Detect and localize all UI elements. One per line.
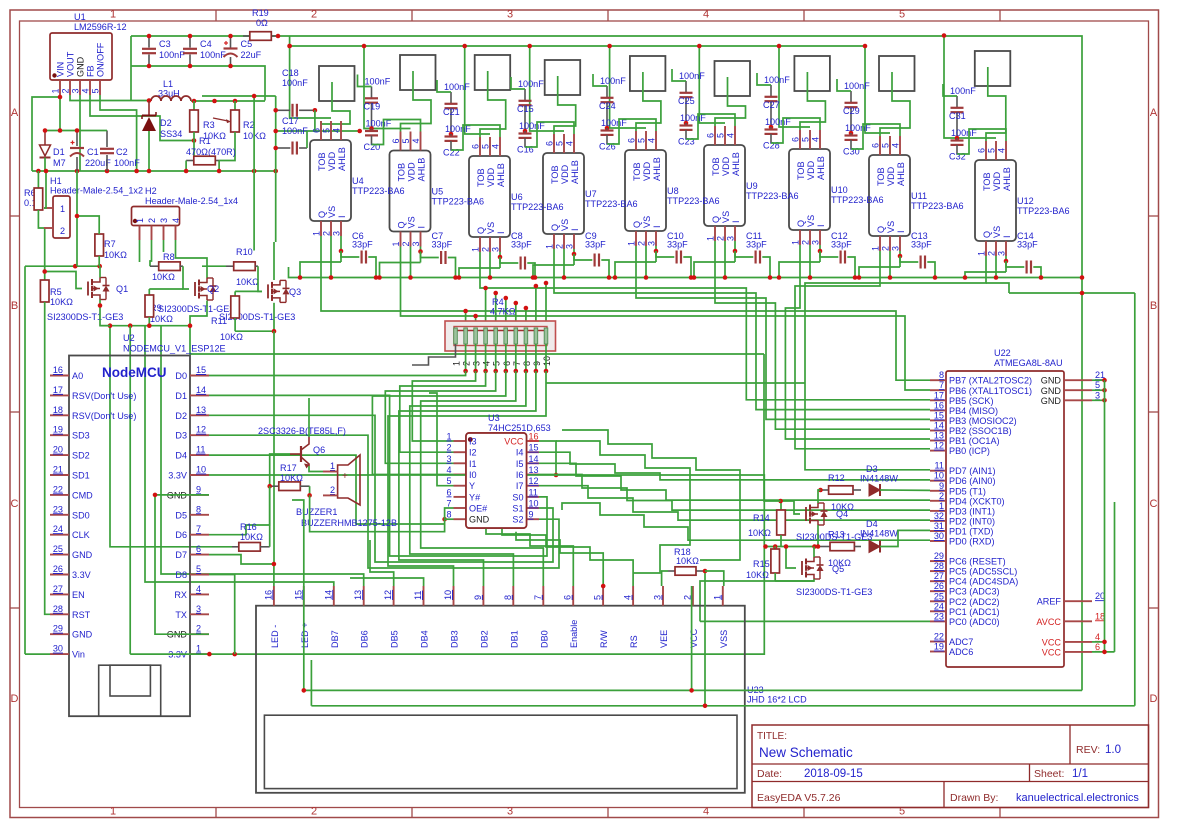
svg-text:PD4 (XCKT0): PD4 (XCKT0): [949, 496, 1005, 506]
svg-text:2: 2: [196, 624, 201, 634]
wire VDD riser U10: [779, 46, 810, 127]
U7 pin 5 VDD: [563, 134, 565, 153]
svg-text:R5: R5: [50, 287, 62, 297]
diode D1 M7: [44, 131, 46, 146]
svg-text:I5: I5: [516, 459, 524, 469]
wire VDD riser U11: [865, 46, 890, 133]
wire LCD DB4 stub net: [350, 578, 424, 586]
wire U9 I to bus3 left: [694, 262, 735, 278]
svg-text:C2: C2: [116, 147, 128, 157]
svg-text:4: 4: [196, 584, 201, 594]
U5 pin 2 VS: [410, 232, 412, 247]
svg-text:8: 8: [503, 595, 513, 600]
wire C24 top: [593, 74, 607, 86]
U22 pin 19 ADC6: [930, 651, 946, 653]
R4 element 6: [504, 328, 508, 344]
svg-text:3: 3: [507, 9, 513, 21]
touch pad U9 channel: [715, 61, 751, 96]
svg-text:23: 23: [53, 504, 63, 514]
svg-text:4: 4: [446, 465, 451, 475]
junction R4 pin 4: [483, 369, 488, 374]
svg-text:VSS: VSS: [719, 630, 729, 648]
svg-text:VDD: VDD: [806, 160, 816, 180]
wire U7 Q output staircase: [554, 249, 930, 410]
svg-text:TTP223-BA6: TTP223-BA6: [432, 197, 485, 207]
svg-text:VS: VS: [992, 226, 1002, 238]
capacitor C25 100nF: [685, 81, 687, 93]
svg-text:16: 16: [53, 365, 63, 375]
U5 pin 6 TOB: [400, 132, 402, 151]
svg-text:RSV(Don't Use): RSV(Don't Use): [72, 391, 136, 401]
U10 pin 3 I: [819, 230, 821, 245]
module U2 body: [69, 356, 190, 717]
svg-text:I: I: [896, 230, 906, 233]
svg-text:1: 1: [871, 246, 881, 251]
capacitor C24 100nF: [606, 86, 608, 98]
svg-text:TTP223-BA6: TTP223-BA6: [585, 199, 638, 209]
svg-text:5: 5: [801, 137, 811, 142]
svg-text:VDD: VDD: [886, 166, 896, 186]
svg-text:3: 3: [491, 247, 501, 252]
svg-text:D3: D3: [866, 464, 878, 474]
wire VDD riser U6: [465, 46, 490, 134]
wire input node rail: [45, 130, 107, 132]
svg-text:2: 2: [60, 226, 65, 236]
svg-text:D1: D1: [53, 147, 65, 157]
svg-text:R3: R3: [203, 120, 215, 130]
wire U3 S1 from NodeMCU D2: [209, 415, 553, 562]
IC U7 TTP223-BA6 body: [543, 153, 584, 234]
U22 pin 18 AVCC: [1064, 620, 1092, 622]
svg-text:6: 6: [871, 143, 881, 148]
U23 pin 5 R/W: [602, 586, 604, 606]
svg-text:Drawn By:: Drawn By:: [950, 792, 998, 804]
U9 pin 6 TOB: [714, 126, 716, 145]
svg-text:R12: R12: [828, 473, 845, 483]
wire R16 right to R17 node: [269, 486, 271, 547]
U2 left pin 18 RSV(Don't Use): [50, 414, 69, 416]
svg-text:D6: D6: [175, 530, 187, 540]
U2 left pin 29 GND: [50, 633, 69, 635]
svg-text:PC3 (ADC3): PC3 (ADC3): [949, 587, 1000, 597]
svg-text:10: 10: [443, 590, 453, 600]
svg-text:PC4 (ADC4SDA): PC4 (ADC4SDA): [949, 577, 1018, 587]
svg-text:2: 2: [555, 244, 565, 249]
wire Q3 source down: [273, 303, 275, 331]
svg-text:8: 8: [939, 370, 944, 380]
wire U10 VS to bus3: [809, 245, 811, 278]
wire D3 to U22 PD5: [880, 489, 930, 491]
svg-text:100nF: 100nF: [282, 78, 308, 88]
svg-text:VS: VS: [407, 216, 417, 228]
wire H2 pin3 stub: [163, 240, 165, 252]
svg-text:1: 1: [627, 241, 637, 246]
wire U11 VS to bus3: [889, 251, 891, 278]
U2 right pin 2 GND: [190, 633, 209, 635]
svg-text:C15: C15: [517, 104, 534, 114]
U22 pin 24 PC1 (ADC1): [930, 610, 946, 612]
svg-text:I: I: [496, 231, 506, 234]
svg-text:VS: VS: [560, 219, 570, 231]
svg-text:Q: Q: [796, 220, 806, 227]
U8 pin 2 VS: [645, 231, 647, 246]
wire U3 S0 from NodeMCU D1: [209, 395, 547, 556]
capacitor C23 100nF: [685, 123, 687, 126]
U12 pin 2 VS: [995, 241, 997, 256]
U7 pin 1 Q: [553, 234, 555, 249]
svg-text:100nF: 100nF: [159, 50, 185, 60]
touch pad U4 channel: [319, 66, 355, 101]
svg-text:5: 5: [716, 133, 726, 138]
svg-text:3: 3: [159, 218, 169, 223]
wire U11 net to R4: [535, 286, 537, 321]
wire NodeMCU D6 to Q6 base: [209, 486, 270, 535]
U11 pin 4 AHLB: [899, 136, 901, 155]
svg-text:VDD: VDD: [486, 167, 496, 187]
touch pad U5 channel: [400, 55, 436, 90]
svg-text:R/W: R/W: [599, 630, 609, 648]
svg-text:4: 4: [411, 138, 421, 143]
junction U12 I pin: [1004, 259, 1009, 264]
svg-text:3.3V: 3.3V: [168, 471, 188, 481]
U22 pin 23 PC0 (ADC0): [930, 620, 946, 622]
svg-text:I7: I7: [516, 481, 524, 491]
svg-text:10KΩ: 10KΩ: [236, 277, 259, 287]
wire C20 bottom to AHLB: [372, 120, 421, 145]
svg-text:I6: I6: [516, 470, 524, 480]
svg-text:Q: Q: [317, 211, 327, 218]
U2 left pin 24 CLK: [50, 534, 69, 536]
diode D2 SS34 schottky: [148, 101, 150, 115]
U2 left pin 28 RST: [50, 613, 69, 615]
U2 right pin 11 D4: [190, 454, 209, 456]
svg-text:PD3 (INT1): PD3 (INT1): [949, 506, 995, 516]
svg-text:EN: EN: [72, 590, 85, 600]
R4 element 3: [474, 328, 478, 344]
junction C4 bottom: [188, 64, 193, 69]
U3 pin 14 I5: [527, 462, 540, 464]
resistor R3 10K: [193, 101, 195, 110]
svg-text:4.7KΩ: 4.7KΩ: [490, 307, 516, 317]
wire R4 p10 to LCD DB3: [388, 371, 546, 586]
svg-text:27: 27: [53, 584, 63, 594]
svg-text:R4: R4: [492, 297, 504, 307]
U23 pin 14 DB7: [333, 586, 335, 606]
U3 pin 13 I6: [527, 474, 540, 476]
svg-text:C16: C16: [517, 145, 534, 155]
svg-text:4: 4: [811, 137, 821, 142]
svg-text:SD0: SD0: [72, 510, 90, 520]
U4 pin 3 I: [340, 221, 342, 236]
svg-text:PD7 (AIN1): PD7 (AIN1): [949, 466, 996, 476]
svg-text:10: 10: [196, 465, 206, 475]
wire VDD riser U12: [944, 36, 996, 139]
wire R14 top left from Q2 source net: [764, 354, 781, 501]
svg-text:1: 1: [706, 236, 716, 241]
H2 pin 3: [163, 226, 165, 241]
wire NodeMCU 3.3V pin10 long rail: [130, 475, 764, 654]
wire H2 pin4 to Q2 drain: [176, 240, 208, 278]
svg-text:100nF: 100nF: [282, 126, 308, 136]
svg-text:U2: U2: [123, 333, 135, 343]
svg-text:33pF: 33pF: [585, 240, 606, 250]
svg-text:I4: I4: [516, 448, 524, 458]
R4 element 10: [544, 328, 548, 344]
svg-text:PD6 (AIN0): PD6 (AIN0): [949, 476, 996, 486]
svg-text:3: 3: [653, 595, 663, 600]
svg-text:33pF: 33pF: [667, 240, 688, 250]
svg-text:SS34: SS34: [160, 129, 182, 139]
svg-text:D3: D3: [175, 431, 187, 441]
svg-text:AHLB: AHLB: [652, 157, 662, 181]
svg-text:AREF: AREF: [1037, 597, 1062, 607]
svg-text:DB2: DB2: [479, 630, 489, 648]
wire H1 pin2 to R5 net: [44, 228, 46, 272]
svg-text:IN4148W: IN4148W: [860, 474, 898, 484]
svg-text:Q2: Q2: [207, 284, 219, 294]
svg-text:2: 2: [939, 491, 944, 501]
svg-text:I0: I0: [469, 470, 477, 480]
wire LED+ to VCC rail: [303, 586, 305, 690]
U22 pin 30 PD0 (RXD): [930, 540, 946, 542]
U2 left pin 23 SD0: [50, 514, 69, 516]
junction D1 top: [43, 128, 48, 133]
wire R18 VSS node down: [704, 571, 706, 706]
svg-text:TOB: TOB: [711, 157, 721, 176]
wire U9 VS to bus3: [724, 241, 726, 278]
U6 pin 1 Q: [479, 237, 481, 252]
svg-text:D4: D4: [175, 451, 187, 461]
svg-text:I: I: [731, 220, 741, 223]
svg-text:1: 1: [330, 461, 335, 471]
U6 pin 2 VS: [489, 237, 491, 252]
U3 pin 3 I1: [454, 462, 467, 464]
svg-text:VS: VS: [486, 222, 496, 234]
junction R4 pin 6: [504, 369, 509, 374]
wire C32 bottom to AHLB: [957, 129, 1006, 154]
svg-text:U22: U22: [994, 348, 1011, 358]
U3 pin 15 I4: [527, 451, 540, 453]
wire U7 net to R4: [495, 293, 497, 321]
svg-text:D8: D8: [175, 570, 187, 580]
junction U10 I pin: [818, 249, 823, 254]
svg-text:RS: RS: [629, 635, 639, 648]
svg-text:OE#: OE#: [469, 504, 488, 514]
IC U3 body redraw: [466, 433, 527, 528]
wire VDD riser U4: [290, 46, 331, 118]
U22 pin 27 PC4 (ADC4SDA): [930, 580, 946, 582]
svg-text:10: 10: [542, 356, 552, 366]
svg-text:33pF: 33pF: [746, 240, 767, 250]
header H2 body: [132, 207, 180, 226]
U22 pin 31 PD1 (TXD): [930, 530, 946, 532]
svg-text:8: 8: [446, 510, 451, 520]
svg-text:4: 4: [703, 806, 709, 818]
svg-text:3: 3: [647, 241, 657, 246]
wire R18 left to VEE: [662, 571, 668, 586]
wire NodeMCU D8 down: [209, 575, 235, 655]
svg-text:Y: Y: [469, 481, 475, 491]
svg-text:RX: RX: [174, 590, 187, 600]
svg-text:33pF: 33pF: [911, 240, 932, 250]
svg-text:8: 8: [522, 361, 532, 366]
svg-text:PC6 (RESET): PC6 (RESET): [949, 557, 1006, 567]
svg-text:28: 28: [53, 604, 63, 614]
wire Q5 gate: [786, 547, 796, 569]
svg-text:DB3: DB3: [450, 630, 460, 648]
U2 left pin 30 Vin: [50, 653, 69, 655]
R4 element 2: [464, 328, 468, 344]
wire R17 right to buzzer pin2: [309, 486, 311, 495]
U23 pin 2 VCC: [692, 586, 694, 606]
svg-text:C32: C32: [949, 152, 966, 162]
touch pad U8 channel: [630, 56, 666, 91]
svg-text:VS: VS: [721, 211, 731, 223]
svg-text:6: 6: [312, 128, 322, 133]
capacitor C29 100nF: [850, 91, 852, 103]
svg-text:SI2300DS-T1-GE3: SI2300DS-T1-GE3: [796, 587, 872, 597]
svg-text:Date:: Date:: [757, 768, 782, 780]
svg-text:TTP223-BA6: TTP223-BA6: [746, 191, 799, 201]
svg-text:1/1: 1/1: [1072, 768, 1088, 780]
U7 pin 2 VS: [563, 234, 565, 249]
U22 pin 20 AREF: [1064, 600, 1092, 602]
wire U7 VS to bus3: [563, 249, 565, 278]
wire H1 pin1 to bus: [44, 171, 46, 208]
svg-text:TTP223-BA6: TTP223-BA6: [831, 195, 884, 205]
wire right vertical to VSS line: [1134, 293, 1136, 706]
U11 pin 1 Q: [879, 236, 881, 251]
svg-text:C22: C22: [443, 148, 460, 158]
wire R10 to Q3 gate: [258, 266, 262, 291]
svg-text:B: B: [1150, 300, 1157, 312]
svg-text:M7: M7: [53, 158, 66, 168]
U22 pin 29 PC6 (RESET): [930, 560, 946, 562]
svg-text:C19: C19: [364, 102, 381, 112]
svg-text:2: 2: [446, 443, 451, 453]
svg-text:R14: R14: [753, 513, 770, 523]
svg-text:2: 2: [987, 251, 997, 256]
svg-text:VS: VS: [806, 215, 816, 227]
svg-text:5: 5: [91, 88, 101, 93]
H1 pin 2: [44, 227, 53, 229]
svg-text:25: 25: [53, 544, 63, 554]
wire Q-region rail: [25, 265, 100, 267]
transistor Q4 SI2300DS-T1-GE3: [805, 507, 807, 521]
wire Q4 gate net: [781, 501, 800, 514]
U2 left pin 17 RSV(Don't Use): [50, 394, 69, 396]
svg-text:4: 4: [1095, 632, 1100, 642]
svg-text:3: 3: [507, 806, 513, 818]
U22 pin 28 PC5 (ADC5SCL): [930, 570, 946, 572]
svg-text:100nF: 100nF: [114, 158, 140, 168]
wire U3 Y to U22 PD2 filler: [429, 393, 454, 486]
U23 pin 10 DB3: [453, 586, 455, 606]
U5 pin 4 AHLB: [420, 132, 422, 151]
svg-text:Q6: Q6: [313, 445, 325, 455]
svg-text:100nF: 100nF: [764, 75, 790, 85]
svg-text:14: 14: [934, 421, 944, 431]
wire U5 I to bus3 left: [380, 263, 421, 278]
svg-text:RST: RST: [72, 610, 91, 620]
capacitor C26 100nF: [606, 128, 608, 131]
wire R4 p3 to U3 I3: [412, 371, 475, 441]
wire U12 VS to bus3: [995, 256, 997, 278]
U2 right pin 13 D2: [190, 414, 209, 416]
U3 pin 2 I2: [454, 451, 467, 453]
horizontal net under Q1 Q2: [130, 325, 190, 327]
svg-text:13: 13: [353, 590, 363, 600]
svg-text:TOB: TOB: [476, 168, 486, 187]
wire L1 output node: [191, 100, 265, 102]
svg-text:LED -: LED -: [270, 625, 280, 648]
transistor Q2 SI2300DS-T1-GE3: [194, 282, 196, 296]
wire U11 I to bus3 left: [859, 267, 900, 278]
transistor Q5 SI2300DS-T1-GE3: [801, 561, 803, 575]
svg-text:2018-09-15: 2018-09-15: [804, 768, 863, 780]
svg-text:12: 12: [934, 441, 944, 451]
R4 pin 6 lead: [505, 344, 507, 371]
U8 pin 5 VDD: [645, 131, 647, 150]
U23 pin 4 RS: [632, 586, 634, 606]
svg-text:3: 3: [196, 604, 201, 614]
U22 pin 8 PB7 (XTAL2TOSC2): [930, 379, 946, 381]
svg-text:0Ω: 0Ω: [256, 18, 268, 28]
svg-text:PB7 (XTAL2TOSC2): PB7 (XTAL2TOSC2): [949, 376, 1032, 386]
U9 pin 4 AHLB: [734, 126, 736, 145]
svg-text:1: 1: [791, 240, 801, 245]
svg-text:PD5 (T1): PD5 (T1): [949, 486, 986, 496]
svg-text:10KΩ: 10KΩ: [748, 528, 771, 538]
wire R8 to Q2 gate: [183, 266, 189, 289]
svg-text:15: 15: [196, 365, 206, 375]
wire R5 bottom to RST: [45, 302, 50, 614]
svg-text:27: 27: [934, 571, 944, 581]
U7 pin 6 TOB: [553, 134, 555, 153]
touch pad U10 channel: [794, 56, 830, 91]
svg-text:2: 2: [881, 246, 891, 251]
wire pad U9 to TOB: [715, 77, 746, 126]
svg-text:I: I: [337, 215, 347, 218]
svg-text:9: 9: [529, 510, 534, 520]
svg-text:12: 12: [196, 425, 206, 435]
U22 pin 22 ADC7: [930, 641, 946, 643]
junction C3 bottom: [147, 64, 152, 69]
svg-text:17: 17: [53, 385, 63, 395]
svg-text:20: 20: [53, 445, 63, 455]
svg-text:REV:: REV:: [1076, 744, 1100, 756]
svg-text:VDD: VDD: [407, 162, 417, 182]
junction R17 left: [267, 484, 272, 489]
U2 right pin 10 3.3V: [190, 474, 209, 476]
wire GND pin3 to ground bus: [79, 95, 81, 171]
svg-text:A0: A0: [72, 371, 83, 381]
U23 pin 3 VEE: [662, 586, 664, 606]
svg-text:C: C: [1150, 498, 1158, 510]
svg-text:11: 11: [413, 591, 423, 600]
junction pin1: [58, 95, 63, 100]
svg-text:4: 4: [482, 361, 492, 366]
U23 pin 1 VSS: [722, 586, 724, 606]
junction U11 I pin: [898, 254, 903, 259]
U23 pin 16 LED -: [273, 586, 275, 606]
U2 left pin 16 A0: [50, 375, 69, 377]
wire bus1 right corner net: [1009, 292, 1135, 294]
wire DB6 net vertical: [161, 326, 364, 586]
svg-text:RSV(Don't Use): RSV(Don't Use): [72, 411, 136, 421]
svg-text:17: 17: [934, 390, 944, 400]
svg-text:AHLB: AHLB: [570, 160, 580, 184]
